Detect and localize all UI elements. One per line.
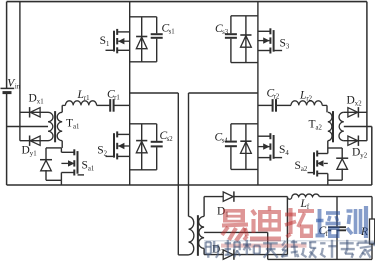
svg-text:T: T	[66, 117, 73, 129]
svg-text:L: L	[299, 90, 306, 102]
svg-text:x1: x1	[37, 98, 44, 105]
svg-text:T: T	[309, 118, 316, 130]
svg-text:D: D	[347, 95, 355, 107]
svg-text:a1: a1	[73, 123, 79, 130]
svg-text:a2: a2	[316, 124, 323, 131]
svg-text:L: L	[77, 89, 84, 101]
svg-text:in: in	[15, 84, 21, 91]
svg-text:a1: a1	[88, 165, 94, 172]
svg-text:D: D	[22, 144, 30, 156]
svg-text:r2: r2	[306, 96, 312, 103]
svg-text:L: L	[300, 198, 307, 210]
svg-text:D: D	[29, 92, 37, 104]
svg-text:s3: s3	[222, 29, 229, 36]
svg-text:D: D	[352, 147, 360, 159]
svg-text:2: 2	[220, 250, 224, 257]
svg-text:4: 4	[285, 150, 289, 157]
svg-text:r1: r1	[114, 95, 120, 102]
svg-text:r2: r2	[274, 94, 280, 101]
svg-text:y2: y2	[360, 153, 367, 160]
svg-text:a2: a2	[301, 166, 308, 173]
svg-text:y1: y1	[30, 150, 37, 157]
svg-text:2: 2	[104, 151, 108, 158]
svg-text:r1: r1	[84, 95, 90, 102]
svg-text:x2: x2	[355, 101, 362, 108]
svg-text:s1: s1	[169, 29, 175, 36]
svg-text:s4: s4	[222, 138, 229, 145]
svg-text:s2: s2	[167, 136, 174, 143]
svg-text:1: 1	[106, 41, 109, 48]
svg-text:3: 3	[286, 44, 290, 51]
